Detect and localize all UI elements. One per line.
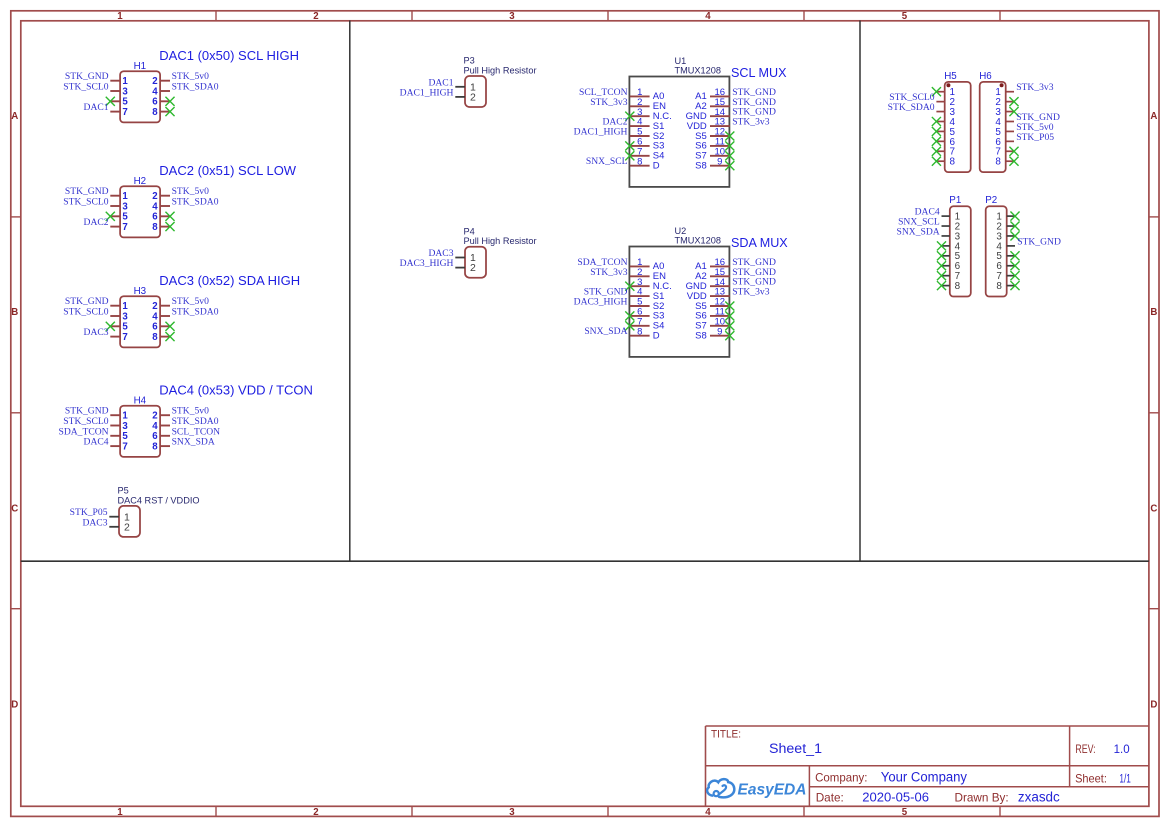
- svg-text:C: C: [1150, 504, 1157, 515]
- svg-text:TMUX1208: TMUX1208: [675, 235, 721, 245]
- svg-text:D: D: [653, 331, 660, 342]
- svg-text:DAC3: DAC3: [82, 517, 107, 528]
- svg-text:EasyEDA: EasyEDA: [738, 782, 807, 799]
- svg-text:4: 4: [705, 807, 711, 818]
- svg-text:STK_SDA0: STK_SDA0: [172, 307, 219, 318]
- svg-text:5: 5: [902, 807, 908, 818]
- svg-text:H4: H4: [134, 395, 147, 406]
- svg-text:DAC4 (0x53) VDD / TCON: DAC4 (0x53) VDD / TCON: [159, 383, 313, 398]
- svg-text:3: 3: [509, 807, 515, 818]
- svg-text:3: 3: [509, 11, 515, 22]
- svg-text:STK_3v3: STK_3v3: [590, 267, 628, 278]
- svg-text:Your Company: Your Company: [881, 769, 967, 784]
- svg-text:1: 1: [117, 807, 123, 818]
- svg-text:7: 7: [122, 441, 127, 452]
- svg-text:4: 4: [705, 11, 711, 22]
- svg-text:8: 8: [995, 157, 1001, 168]
- svg-text:P3: P3: [464, 56, 475, 66]
- svg-text:1: 1: [117, 11, 123, 22]
- svg-text:S8: S8: [695, 161, 707, 172]
- svg-text:DAC1 (0x50) SCL HIGH: DAC1 (0x50) SCL HIGH: [159, 48, 299, 63]
- svg-text:1.0: 1.0: [1114, 742, 1130, 756]
- svg-text:H6: H6: [979, 71, 992, 82]
- svg-text:DAC4 RST / VDDIO: DAC4 RST / VDDIO: [118, 495, 200, 505]
- svg-text:DAC4: DAC4: [84, 437, 109, 448]
- svg-text:STK_P05: STK_P05: [1016, 132, 1054, 143]
- svg-text:H2: H2: [134, 176, 147, 187]
- svg-text:STK_3v3: STK_3v3: [1016, 82, 1054, 93]
- svg-text:2: 2: [313, 11, 318, 22]
- svg-text:1/1: 1/1: [1119, 771, 1131, 785]
- svg-text:SCL MUX: SCL MUX: [731, 66, 787, 80]
- svg-text:STK_3v3: STK_3v3: [590, 97, 628, 108]
- svg-text:Date:: Date:: [816, 790, 844, 804]
- svg-text:2020-05-06: 2020-05-06: [862, 789, 929, 804]
- svg-text:P5: P5: [118, 486, 129, 496]
- svg-text:A: A: [1150, 111, 1157, 122]
- svg-text:H5: H5: [944, 71, 957, 82]
- svg-text:8: 8: [637, 156, 642, 167]
- svg-text:Sheet_1: Sheet_1: [769, 741, 822, 757]
- svg-text:STK_SCL0: STK_SCL0: [63, 197, 109, 208]
- svg-text:DAC3: DAC3: [84, 327, 109, 338]
- svg-text:A: A: [11, 111, 18, 122]
- svg-text:SNX_SDA: SNX_SDA: [172, 437, 215, 448]
- svg-text:B: B: [1150, 307, 1157, 318]
- svg-text:2: 2: [470, 92, 476, 104]
- svg-text:STK_SCL0: STK_SCL0: [63, 82, 109, 93]
- svg-text:STK_SDA0: STK_SDA0: [172, 82, 219, 93]
- svg-text:8: 8: [152, 222, 158, 233]
- svg-text:C: C: [11, 504, 18, 515]
- svg-text:P1: P1: [949, 195, 961, 206]
- svg-text:9: 9: [717, 156, 722, 167]
- svg-text:STK_GND: STK_GND: [1017, 236, 1061, 247]
- svg-text:8: 8: [152, 332, 158, 343]
- svg-text:TITLE:: TITLE:: [711, 729, 741, 741]
- svg-text:SNX_SCL: SNX_SCL: [586, 156, 628, 167]
- svg-text:SNX_SDA: SNX_SDA: [584, 326, 627, 337]
- svg-text:P2: P2: [985, 195, 997, 206]
- svg-text:7: 7: [122, 222, 127, 233]
- svg-text:DAC1_HIGH: DAC1_HIGH: [400, 87, 454, 98]
- svg-text:8: 8: [152, 441, 158, 452]
- svg-text:DAC3_HIGH: DAC3_HIGH: [574, 297, 628, 308]
- svg-text:8: 8: [950, 157, 956, 168]
- svg-text:DAC2: DAC2: [84, 217, 109, 228]
- svg-text:Pull High Resistor: Pull High Resistor: [464, 236, 537, 246]
- svg-text:8: 8: [955, 281, 961, 292]
- svg-text:DAC1: DAC1: [84, 102, 109, 113]
- svg-text:H3: H3: [134, 286, 147, 297]
- svg-text:STK_SCL0: STK_SCL0: [63, 307, 109, 318]
- svg-text:REV:: REV:: [1075, 742, 1095, 756]
- svg-text:7: 7: [122, 332, 127, 343]
- svg-text:SDA MUX: SDA MUX: [731, 236, 788, 250]
- svg-text:2: 2: [470, 262, 476, 274]
- svg-text:STK_3v3: STK_3v3: [732, 287, 770, 298]
- svg-text:DAC2 (0x51) SCL LOW: DAC2 (0x51) SCL LOW: [159, 163, 297, 178]
- svg-text:8: 8: [152, 107, 158, 118]
- svg-text:P4: P4: [464, 226, 475, 236]
- svg-text:STK_3v3: STK_3v3: [732, 117, 770, 128]
- svg-text:TMUX1208: TMUX1208: [675, 65, 721, 75]
- svg-text:STK_SDA0: STK_SDA0: [172, 197, 219, 208]
- svg-text:zxasdc: zxasdc: [1018, 789, 1060, 804]
- svg-text:D: D: [11, 700, 18, 711]
- svg-text:D: D: [1150, 700, 1157, 711]
- svg-text:8: 8: [996, 281, 1002, 292]
- svg-text:7: 7: [122, 107, 127, 118]
- svg-text:DAC3 (0x52) SDA HIGH: DAC3 (0x52) SDA HIGH: [159, 273, 300, 288]
- svg-text:DAC3_HIGH: DAC3_HIGH: [400, 258, 454, 269]
- svg-text:2: 2: [313, 807, 318, 818]
- svg-text:Company:: Company:: [815, 770, 867, 784]
- svg-text:B: B: [11, 307, 18, 318]
- svg-text:Pull High Resistor: Pull High Resistor: [464, 66, 537, 76]
- svg-text:STK_SDA0: STK_SDA0: [888, 102, 935, 113]
- svg-text:Drawn By:: Drawn By:: [955, 790, 1009, 804]
- svg-text:5: 5: [902, 11, 908, 22]
- svg-text:8: 8: [637, 326, 642, 337]
- svg-text:Sheet:: Sheet:: [1075, 771, 1107, 785]
- svg-text:D: D: [653, 161, 660, 172]
- svg-text:2: 2: [124, 521, 130, 533]
- svg-text:DAC1_HIGH: DAC1_HIGH: [574, 127, 628, 138]
- svg-text:SNX_SDA: SNX_SDA: [897, 226, 940, 237]
- svg-text:H1: H1: [134, 61, 147, 72]
- svg-text:S8: S8: [695, 331, 707, 342]
- svg-text:9: 9: [717, 326, 722, 337]
